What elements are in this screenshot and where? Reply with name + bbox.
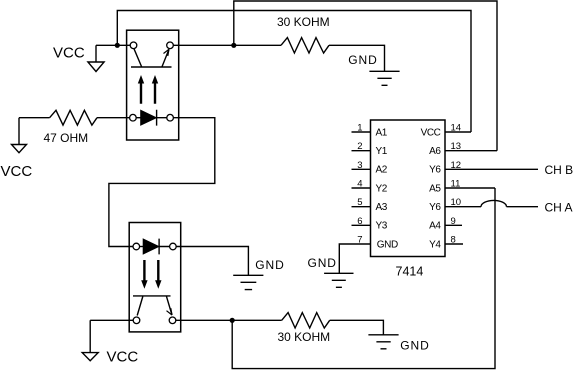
pin 2 wire — [352, 150, 371, 152]
pin 11 wire — [445, 187, 495, 189]
svg-text:5: 5 — [357, 197, 362, 208]
svg-text:VCC: VCC — [107, 349, 139, 366]
svg-text:GND: GND — [400, 338, 429, 352]
VCC power symbol (top, open arrow) — [88, 45, 104, 71]
optocoupler U2 body (top slotted switch) — [127, 30, 179, 140]
pin number 4 — [357, 179, 362, 190]
U2 terminal circles — [130, 42, 174, 121]
pin 3 wire — [352, 168, 371, 170]
wire VCC left rail to 47 OHM resistor — [19, 117, 50, 119]
wire VCC rail to optocoupler U2 collector — [96, 44, 130, 46]
svg-text:47 OHM: 47 OHM — [44, 131, 89, 145]
VCC power symbol (left, open arrow) — [12, 118, 27, 153]
value label 47 OHM (R2) — [44, 131, 89, 145]
svg-text:14: 14 — [451, 123, 462, 134]
wire U2 LED cathode to U3 LED anode (jog) — [109, 118, 215, 247]
U2 light arrows (up) — [141, 83, 155, 104]
svg-text:4: 4 — [357, 179, 362, 190]
resistor R2 47 OHM — [50, 110, 97, 125]
part label 7414 — [396, 265, 424, 279]
pin name A6 — [429, 146, 441, 157]
svg-text:CH A: CH A — [545, 200, 573, 214]
svg-text:VCC: VCC — [421, 127, 441, 138]
pin 1 wire — [352, 131, 371, 133]
pin name VCC — [421, 127, 441, 138]
GND label (bottom right) — [400, 338, 429, 352]
svg-text:GND: GND — [348, 53, 377, 67]
svg-text:GND: GND — [308, 256, 337, 270]
svg-text:A4: A4 — [429, 221, 441, 232]
pin 13 wire — [445, 150, 497, 152]
pin 8 wire — [445, 243, 463, 245]
ground symbol (pin 7) — [324, 273, 353, 287]
svg-text:A5: A5 — [429, 183, 441, 194]
pin name A5 — [429, 183, 441, 194]
pin number 10 — [451, 197, 462, 208]
svg-text:Y6: Y6 — [429, 202, 441, 213]
svg-text:11: 11 — [451, 179, 461, 190]
pin 12 wire to CH B — [445, 168, 538, 170]
pin name Y6 — [429, 165, 441, 176]
pin number 12 — [451, 160, 462, 171]
ground symbol (top right) — [369, 71, 399, 85]
wire R2 to U2 LED anode — [97, 117, 130, 119]
VCC label (bottom) — [107, 349, 139, 366]
wire U3 LED cathode to ground — [176, 247, 248, 276]
wire R3 to ground (bottom) — [330, 320, 384, 335]
pin name A1 — [376, 127, 388, 138]
node label CH B — [545, 163, 574, 177]
svg-text:10: 10 — [451, 197, 462, 208]
GND label (top right) — [348, 53, 377, 67]
value label 30 KOHM (R1) — [277, 15, 330, 29]
U3 light arrows (down) — [144, 260, 158, 281]
pin number 13 — [451, 141, 462, 152]
wire R1 to ground — [329, 45, 385, 71]
svg-text:Y6: Y6 — [429, 165, 441, 176]
pin 5 wire — [352, 206, 371, 208]
wire U2 collector output to 30 KOHM resistor — [173, 44, 281, 46]
wire U3 emitter to VCC stub — [90, 319, 133, 321]
svg-text:A3: A3 — [376, 202, 388, 213]
GND label (pin 7) — [308, 256, 337, 270]
pin 6 wire — [352, 224, 371, 226]
wire inner top loop (node: pin14 net / VCC) — [117, 11, 471, 133]
svg-text:2: 2 — [357, 141, 362, 152]
pin number 6 — [357, 216, 362, 227]
pin 7 wire to ground — [339, 244, 370, 273]
svg-text:Y2: Y2 — [376, 183, 388, 194]
VCC power symbol (bottom, open arrow) — [82, 320, 98, 361]
ground symbol (bottom right of R3) — [368, 335, 398, 349]
GND label (middle) — [255, 258, 284, 272]
svg-text:7414: 7414 — [396, 265, 424, 279]
svg-text:Y3: Y3 — [376, 221, 388, 232]
pin name A3 — [376, 202, 388, 213]
junction dot C (R3 / pin11 net) — [230, 318, 235, 323]
U3 phototransistor — [133, 296, 172, 316]
svg-text:GND: GND — [377, 239, 398, 250]
pin number 3 — [357, 160, 362, 171]
pin number 14 — [451, 123, 462, 134]
pin 9 wire — [445, 224, 462, 226]
svg-text:GND: GND — [255, 258, 284, 272]
pin number 9 — [451, 216, 456, 227]
svg-text:8: 8 — [451, 235, 456, 246]
pin 14 wire — [445, 131, 471, 133]
svg-text:A1: A1 — [376, 127, 388, 138]
pin name GND — [377, 239, 398, 250]
pin 4 wire — [352, 187, 371, 189]
svg-text:9: 9 — [451, 216, 456, 227]
svg-text:30 KOHM: 30 KOHM — [278, 330, 331, 344]
node label CH A — [545, 200, 573, 214]
pin name Y2 — [376, 183, 388, 194]
VCC label (top left) — [53, 44, 85, 61]
svg-text:7: 7 — [357, 235, 362, 246]
svg-text:30 KOHM: 30 KOHM — [277, 15, 330, 29]
svg-text:Y4: Y4 — [429, 239, 441, 250]
resistor R3 30 KOHM (bottom) — [282, 313, 330, 328]
resistor R1 30 KOHM (top) — [281, 38, 329, 53]
svg-text:VCC: VCC — [1, 163, 33, 180]
pin name Y1 — [376, 146, 388, 157]
pin name Y4 — [429, 239, 441, 250]
svg-text:12: 12 — [451, 160, 462, 171]
optocoupler U3 body (bottom slotted switch) — [129, 223, 181, 332]
U2 LED (anode left) — [136, 110, 167, 126]
pin number 7 — [357, 235, 362, 246]
pin number 2 — [357, 141, 362, 152]
pin name Y3 — [376, 221, 388, 232]
pin number 11 — [451, 179, 461, 190]
svg-text:13: 13 — [451, 141, 462, 152]
pin name A4 — [429, 221, 441, 232]
pin name Y6 (pin 10) — [429, 202, 441, 213]
svg-text:3: 3 — [357, 160, 362, 171]
U2 phototransistor — [131, 48, 172, 67]
pin number 8 — [451, 235, 456, 246]
ground symbol (middle, U3 LED) — [233, 275, 263, 289]
svg-text:A2: A2 — [376, 165, 388, 176]
VCC label (far left) — [1, 163, 33, 180]
U3 LED (anode left) — [140, 239, 170, 255]
pin number 1 — [357, 123, 362, 134]
svg-text:6: 6 — [357, 216, 362, 227]
wire bottom feedback to pin 11 — [232, 188, 495, 369]
svg-text:Y1: Y1 — [376, 146, 388, 157]
IC U1 7414 body — [371, 120, 446, 257]
wire U3 collector to 30 KOHM resistor (bottom) — [176, 319, 282, 321]
pin 10 wire to CH A with hop over pin 11 net — [445, 200, 538, 206]
value label 30 KOHM (R3) — [278, 330, 331, 344]
svg-text:CH B: CH B — [545, 163, 574, 177]
svg-text:A6: A6 — [429, 146, 441, 157]
pin number 5 — [357, 197, 362, 208]
junction dot B (pin13 net / R1) — [231, 43, 236, 48]
wire outer top loop (node: pin13 net) — [234, 1, 497, 151]
svg-text:1: 1 — [357, 123, 362, 134]
junction dot A (VCC / pin14 net) — [115, 43, 120, 48]
svg-text:VCC: VCC — [53, 44, 85, 61]
U3 terminal circles — [133, 243, 176, 323]
pin name A2 — [376, 165, 388, 176]
